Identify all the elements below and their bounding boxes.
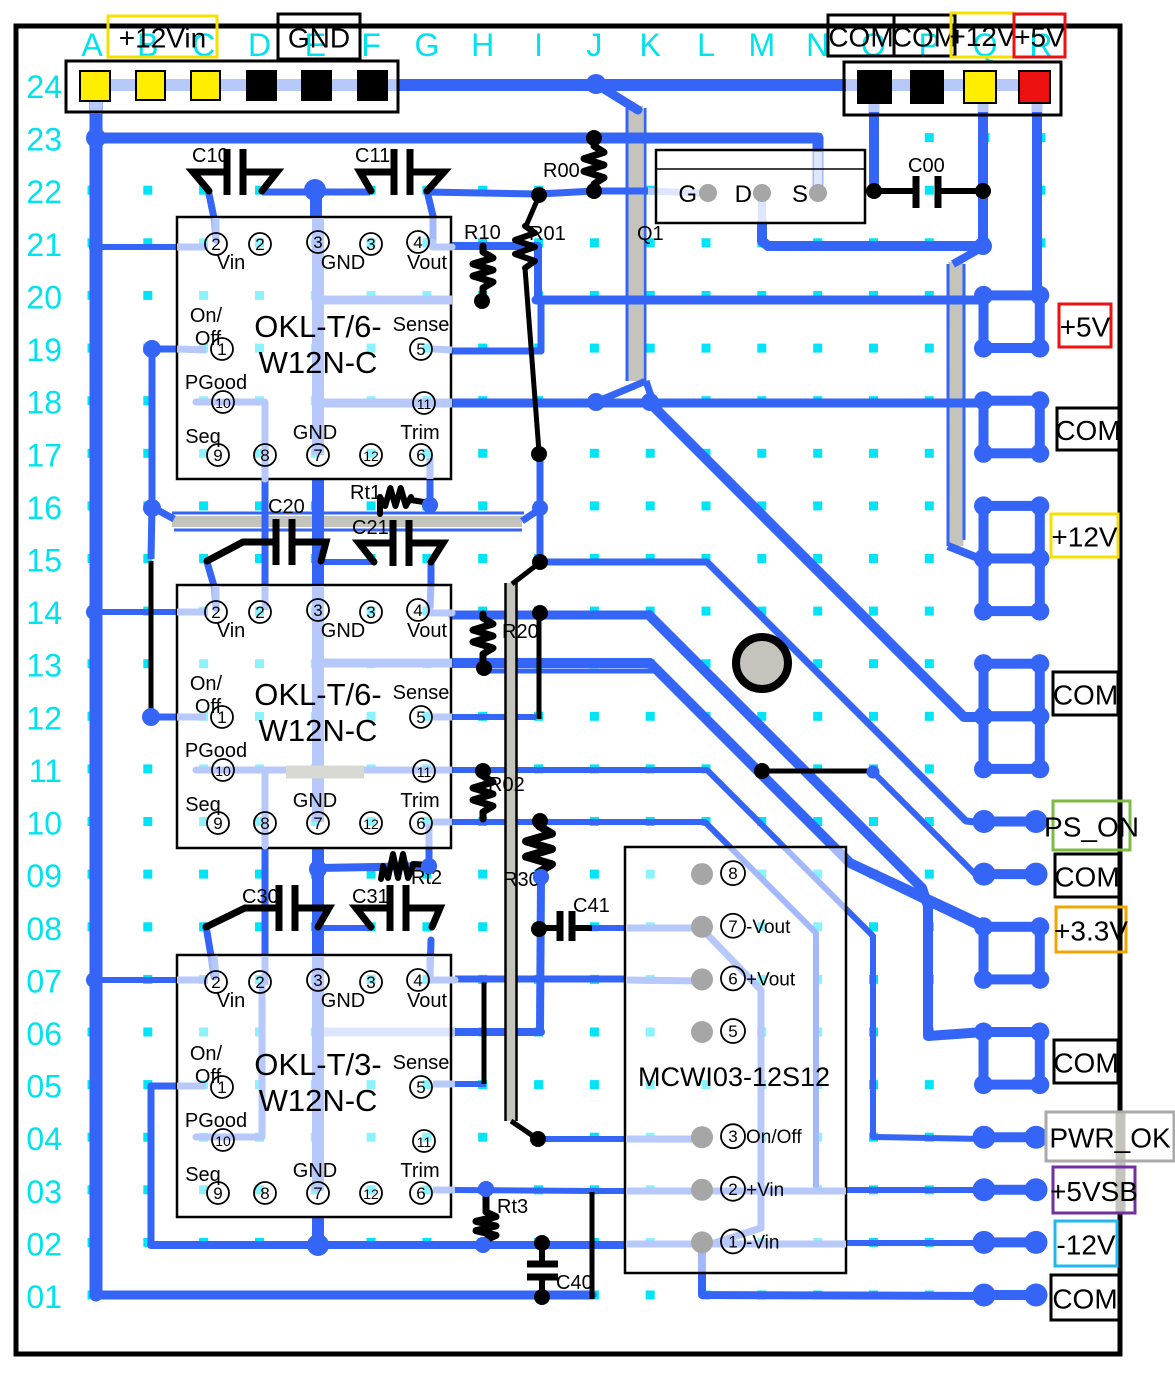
svg-text:C11: C11 <box>355 145 390 167</box>
svg-text:L: L <box>697 27 715 63</box>
svg-text:2: 2 <box>255 235 264 254</box>
svg-text:8: 8 <box>260 814 269 833</box>
svg-text:D: D <box>735 181 752 208</box>
junction B12 <box>142 708 160 726</box>
bare PS_ON jumper gray bar middle with black outline <box>506 583 517 1121</box>
pad C24 +12Vin yellow <box>191 71 220 100</box>
resistor R02 <box>473 772 493 819</box>
pale Vin2 stub <box>177 609 208 616</box>
svg-text:D: D <box>248 27 271 63</box>
wire PS_ON diagonal L15 to dumbbell <box>707 562 984 823</box>
+12V pad square Q16-R15 <box>974 496 1049 568</box>
pale PGood2 row 11 trace <box>265 767 452 774</box>
pale Vin3 stub <box>177 977 208 984</box>
wire E column GND between module1 and module2 <box>312 479 324 586</box>
wire Q24 pad down through C00 right to Q junction <box>978 112 988 246</box>
pale D column module2 top <box>262 586 269 610</box>
PS_ON terminal dots <box>973 810 1048 833</box>
pale MCWI row 7 stub <box>626 980 702 981</box>
svg-text:MCWI03-12S12: MCWI03-12S12 <box>638 1062 830 1092</box>
wire E08 to F08 C31 left <box>318 925 372 931</box>
svg-text:+12V: +12V <box>949 21 1015 52</box>
svg-text:07: 07 <box>26 963 62 999</box>
svg-text:Vin: Vin <box>217 620 246 642</box>
svg-text:G: G <box>678 181 697 208</box>
svg-text:H: H <box>471 27 494 63</box>
svg-text:20: 20 <box>26 279 62 315</box>
svg-text:09: 09 <box>26 858 62 894</box>
module U4 MCWI03 box <box>625 847 846 1273</box>
net label COM P <box>892 15 957 56</box>
svg-text:C21: C21 <box>352 517 389 539</box>
svg-text:12: 12 <box>26 700 62 736</box>
black diagonal bar bottom to I04 <box>511 1121 536 1138</box>
pale C20 drop inside <box>213 586 220 608</box>
module U1 pin 8 <box>254 444 276 466</box>
svg-text:3: 3 <box>366 235 375 254</box>
junction C40 bottom <box>534 1289 550 1305</box>
svg-text:R02: R02 <box>488 774 525 796</box>
wire Q junction diagonal to +12V bare jumper <box>953 247 983 264</box>
wire C21 right G15 drop to module 2 pin 4 <box>430 564 431 608</box>
module U1 pin 7 GND <box>307 444 329 466</box>
svg-text:COM: COM <box>892 22 957 53</box>
PWR_OK terminal dots <box>973 1126 1048 1149</box>
module U2 pin 2 Vin <box>205 601 227 623</box>
junction J22 R00 bottom <box>586 183 602 199</box>
module U4 pad pin 5 <box>691 1021 713 1043</box>
junction E02 <box>307 1234 329 1256</box>
module U3 pin 12 <box>360 1182 382 1204</box>
svg-text:GND: GND <box>293 790 337 812</box>
wire Q24 pad pale drop <box>978 101 989 114</box>
wire COM diagonal O11 to row 9 dumbbell <box>873 772 984 875</box>
svg-text:COM: COM <box>1053 680 1118 711</box>
wire On/Off3 column B row 5 to row 2 <box>148 1086 155 1245</box>
bare wire jumper B16-I16 gray <box>172 516 522 527</box>
svg-text:R20: R20 <box>502 621 539 643</box>
svg-text:+12Vin: +12Vin <box>119 23 206 54</box>
svg-text:+Vin: +Vin <box>746 1180 784 1201</box>
svg-text:+5V: +5V <box>1014 22 1065 53</box>
wire Sense2 row 12 to I12 <box>452 714 536 720</box>
svg-text:Vout: Vout <box>407 620 447 642</box>
junction B16 <box>143 499 161 517</box>
svg-text:3: 3 <box>313 233 322 252</box>
svg-text:24: 24 <box>26 69 62 105</box>
junction H11 R02 top <box>475 763 491 779</box>
junction E22 <box>304 179 326 201</box>
module U1 pin 4 Vout <box>407 231 429 253</box>
svg-text:Sense: Sense <box>393 1052 450 1074</box>
junction J23 R00 top <box>586 130 602 146</box>
junction J18 <box>587 393 605 411</box>
module U4 pin 1 <box>721 1229 745 1253</box>
capacitor C31 <box>356 885 440 931</box>
wire Vout3 row 7 to MCWI <box>455 976 626 983</box>
svg-text:14: 14 <box>26 595 62 631</box>
wire I17 to I16 to I15 <box>537 454 544 562</box>
svg-text:C31: C31 <box>352 886 389 908</box>
pad R24 +5V red <box>1019 71 1050 103</box>
net label +12V <box>1051 514 1118 557</box>
svg-text:10: 10 <box>26 806 62 842</box>
pale Vout3 stub <box>430 977 455 980</box>
svg-text:18: 18 <box>26 385 62 421</box>
svg-text:C20: C20 <box>268 496 305 518</box>
black diagonal bar top to I15 <box>512 564 538 584</box>
svg-text:GND: GND <box>321 252 365 274</box>
svg-text:Trim: Trim <box>400 422 439 444</box>
bare wire jumper row 16 top edge line <box>172 512 524 515</box>
pad O24 COM black <box>858 71 891 103</box>
junction I04 <box>530 1131 546 1147</box>
junction I15 <box>532 554 548 570</box>
pale C10 drop inside <box>213 218 220 240</box>
wire row 07 Vin3 from A07 to module 3 <box>94 977 178 983</box>
wire Sense3 row 5 to H05 <box>455 1081 486 1087</box>
wire Trim1 drop to Rt1 dot <box>427 479 434 505</box>
net label PS_ON <box>1044 801 1139 850</box>
svg-text:10: 10 <box>215 395 231 411</box>
svg-text:1: 1 <box>728 1232 737 1251</box>
svg-text:+3.3V: +3.3V <box>1054 916 1128 947</box>
wire +5VSB diagonal L10 into MCWI to N column down to row 3 <box>705 822 816 1186</box>
pad D24 GND black <box>247 71 276 100</box>
junction I17 R01 bottom <box>531 446 547 462</box>
pale Trim2 stub right <box>433 819 452 826</box>
wire I09 to I08 to row 6 corner <box>540 877 541 1031</box>
junction R10 bottom <box>474 293 490 309</box>
module U2 pin 9 Seq <box>207 812 229 834</box>
bare COM jumper thin line column J-K left <box>626 108 629 381</box>
resistor R10 <box>473 246 493 299</box>
svg-text:9: 9 <box>213 446 222 465</box>
svg-text:OKL-T/3-: OKL-T/3- <box>254 1047 381 1082</box>
wire Trim2 dot up into module 2 <box>426 824 433 866</box>
junction I02 <box>534 1235 550 1251</box>
black link I12 to I14 <box>537 613 542 719</box>
wire row 8 C41 to MCWI pin 7 <box>592 925 626 931</box>
module U4 pin 3 <box>721 1124 745 1148</box>
module U4 pad pin 8 <box>691 863 713 885</box>
svg-text:C00: C00 <box>908 155 945 177</box>
module U3 pin 4 Vout <box>407 969 429 991</box>
svg-text:COM: COM <box>1054 862 1119 893</box>
resistor R20 <box>473 614 493 666</box>
svg-text:Rt1: Rt1 <box>350 482 381 504</box>
module U1 pin 11 <box>413 392 435 414</box>
svg-text:W12N-C: W12N-C <box>259 1083 378 1118</box>
svg-text:COM: COM <box>1052 1284 1117 1315</box>
svg-text:4: 4 <box>413 601 422 620</box>
junction I09 <box>533 869 549 885</box>
svg-text:W12N-C: W12N-C <box>259 345 378 380</box>
junction H02 <box>475 1237 491 1253</box>
wire PGood2 row 11 to L11 <box>452 767 707 773</box>
junction A21 <box>89 240 103 254</box>
wire row 6 from module 3 to I06 corner <box>318 1028 541 1036</box>
junction Rt1 dot top <box>422 497 438 513</box>
wire row 02 from B02 to MCWI pin 1 <box>151 1241 623 1249</box>
svg-text:COM: COM <box>1055 415 1120 446</box>
svg-text:COM: COM <box>828 22 893 53</box>
capacitor C00 <box>874 176 983 208</box>
pale MCWI -Vout to -Vin trace <box>702 929 761 1247</box>
wire row 18 PGood/11 row to COM square Q18 <box>452 399 984 408</box>
module U4 pin 5 <box>721 1019 745 1043</box>
wire row 24 GND F24 to O24 <box>398 79 846 91</box>
pale row20 branch module1 <box>318 296 452 305</box>
pale Sense3 stub <box>433 1081 455 1088</box>
junction I09 top <box>533 869 549 885</box>
capacitor C21 <box>359 520 443 566</box>
svg-text:On/: On/ <box>190 673 223 695</box>
pale MCWI row 4 stub <box>626 1136 702 1143</box>
wire R24 pad pale drop <box>1032 101 1043 114</box>
svg-text:+12V: +12V <box>1051 522 1117 553</box>
pale Trim2 drop <box>426 824 433 846</box>
svg-text:8: 8 <box>260 446 269 465</box>
capacitor C20 <box>207 519 326 565</box>
junction Rt1 dot <box>422 497 438 513</box>
wire M11 to O11 black jumper <box>762 769 873 774</box>
module U2 pin 2b <box>249 601 271 623</box>
wire row 9 E09 to Trim2 dot G09 <box>318 866 429 868</box>
junction E09 <box>309 860 327 878</box>
junction J24 <box>586 74 606 94</box>
svg-text:12: 12 <box>363 1186 379 1202</box>
wire E column GND module3 to row 02 <box>312 1217 324 1245</box>
junction C00 right <box>975 183 991 199</box>
module U1 pin 2b <box>249 233 271 255</box>
svg-text:04: 04 <box>26 1121 62 1157</box>
black link B15 to B12 On/Off2 <box>149 561 154 714</box>
svg-text:10: 10 <box>215 763 231 779</box>
svg-text:COM: COM <box>1053 1048 1118 1079</box>
module U4 pad pin 7 <box>691 916 713 938</box>
junction M11 <box>754 763 770 779</box>
junction A23 <box>86 128 106 148</box>
junction C00 left <box>866 183 882 199</box>
svg-text:5: 5 <box>416 708 425 727</box>
wire row 4 PS_ON I04 to MCWI pin 3 <box>538 1136 626 1142</box>
module U3 pin 3b <box>360 971 382 993</box>
wire Vout2 row 14 to K14 <box>452 611 649 620</box>
wire row 21 Vin1 from A21 to module 1 <box>94 244 178 250</box>
svg-text:3: 3 <box>728 1127 737 1146</box>
wire row 3 Trim3 to H03 to J03 to MCWI pin 2 <box>455 1190 626 1191</box>
left input connector box <box>66 61 398 112</box>
svg-text:Vin: Vin <box>217 990 246 1012</box>
module U1 pin 3b <box>360 233 382 255</box>
svg-text:+5VSB: +5VSB <box>1050 1176 1138 1207</box>
module U1 OKL-T/6 box <box>177 217 451 479</box>
module U1 pin 6 Trim <box>410 444 432 466</box>
module U3 pin 7 GND <box>307 1182 329 1204</box>
svg-text:11: 11 <box>29 753 62 789</box>
wire +12Vin rail column A <box>90 100 103 1295</box>
mounting hole M13 <box>736 637 788 689</box>
svg-text:On/: On/ <box>190 305 223 327</box>
resistor Rt1 <box>380 488 430 514</box>
module U2 pin 11 <box>413 760 435 782</box>
module U3 pin 8 <box>254 1182 276 1204</box>
pale PGood2 trace <box>196 770 265 846</box>
COM terminal dots row 9 <box>973 863 1048 886</box>
pale On/Off2 stub <box>177 714 206 721</box>
capacitor C41 <box>544 911 592 941</box>
bare +12V jumper thin line right edge <box>963 264 966 540</box>
module U2 pin 12 <box>360 812 382 834</box>
svg-text:J: J <box>586 27 602 63</box>
svg-text:GND: GND <box>293 1160 337 1182</box>
junction K18 <box>641 393 659 411</box>
wire Q1 D pad drop and row to Q column <box>762 223 983 246</box>
svg-text:A: A <box>81 27 103 63</box>
+5VSB terminal dots <box>973 1178 1048 1201</box>
net label GND top <box>278 14 360 59</box>
svg-text:7: 7 <box>313 814 322 833</box>
svg-text:+5V: +5V <box>1060 312 1111 343</box>
pale C31 drop inside <box>427 956 434 975</box>
bare +12V jumper thin line left edge <box>947 264 950 546</box>
pad B24 +12Vin yellow <box>136 71 165 100</box>
wire C31 right drop to module 3 pin 4 <box>430 940 431 975</box>
svg-text:R10: R10 <box>464 222 501 244</box>
wire column B B19 to B16 <box>149 349 156 507</box>
wire row 19 On/Off1 from B19 to module 1 <box>152 346 178 353</box>
wire row 24 pale behind right connector pads <box>846 79 1048 91</box>
svg-text:01: 01 <box>26 1279 62 1315</box>
svg-text:11: 11 <box>417 396 432 412</box>
svg-text:Vout: Vout <box>407 252 447 274</box>
module U2 pin 3b <box>360 601 382 623</box>
wire J24 diagonal to COM bare jumper <box>596 84 638 110</box>
pale row13 branch module2 <box>318 659 452 668</box>
net label COM 6 <box>1053 1040 1118 1083</box>
module U1 pin 12 <box>360 444 382 466</box>
net label COM 1 <box>1051 1275 1119 1320</box>
-12V terminal dots <box>973 1231 1048 1254</box>
svg-text:13: 13 <box>26 648 62 684</box>
wire C21 left F15 to E column <box>321 559 374 565</box>
junction A07 <box>86 972 102 988</box>
pale MCWI row 2 trace <box>626 1241 846 1248</box>
module U3 pin 11 <box>413 1130 435 1152</box>
junction G09 top <box>421 858 437 874</box>
Q1 pad G <box>699 184 717 202</box>
junction H03 top <box>478 1181 494 1197</box>
svg-text:F: F <box>361 27 381 63</box>
+3.3V pad square Q8-R7 <box>974 917 1049 989</box>
capacitor C11 <box>360 149 444 195</box>
svg-text:OKL-T/6-: OKL-T/6- <box>254 309 381 344</box>
wire Sense1 from module edge up to row 20 <box>452 302 541 351</box>
pale row18 branch module1 <box>318 399 452 408</box>
svg-text:PGood: PGood <box>185 740 247 762</box>
pale On/Off1 stub <box>177 349 206 350</box>
module U2 OKL-T/6 box <box>177 585 451 848</box>
pale Sense1 stub <box>433 349 452 350</box>
pale Trim3 stub <box>433 1187 455 1194</box>
wire jumper bottom diagonal to K18 <box>646 381 652 399</box>
pale On/Off3 stub <box>177 1083 206 1090</box>
net label +3.3V <box>1054 907 1128 952</box>
svg-text:3: 3 <box>366 973 375 992</box>
net label +5V top <box>1014 14 1065 57</box>
wire module2 PGood chain column D down to module 3 <box>262 770 269 956</box>
module U4 pin 6 <box>721 966 745 990</box>
svg-text:03: 03 <box>26 1174 62 1210</box>
wire C30 left drop to module 3 pin 2 <box>206 926 214 977</box>
pale Vout2 stub <box>430 610 452 613</box>
svg-text:-Vout: -Vout <box>746 917 791 938</box>
svg-text:1: 1 <box>217 708 226 727</box>
module U1 pin 5 Sense <box>410 338 432 360</box>
module U4 pad pin 6 <box>691 968 713 990</box>
row numbers 24-01 <box>26 69 62 1315</box>
svg-text:M: M <box>748 27 775 63</box>
wire E column GND module2 to module3 through E09 E08 <box>312 848 324 956</box>
junction I14 <box>532 605 548 621</box>
module U2 pin 6 Trim <box>410 812 432 834</box>
svg-text:9: 9 <box>213 814 222 833</box>
svg-text:PGood: PGood <box>185 372 247 394</box>
bare +12V jumper gray bar right column <box>949 262 964 546</box>
svg-text:3: 3 <box>366 603 375 622</box>
module U2 pin 8 <box>254 812 276 834</box>
svg-text:17: 17 <box>26 437 62 473</box>
svg-text:R00: R00 <box>543 160 580 182</box>
svg-text:2: 2 <box>255 973 264 992</box>
svg-text:5: 5 <box>416 340 425 359</box>
svg-text:1: 1 <box>217 1078 226 1097</box>
svg-text:2: 2 <box>728 1180 737 1199</box>
svg-text:8: 8 <box>728 864 737 883</box>
wire R24 pad down to +5V square R20 <box>1037 112 1040 296</box>
wire Vout2 diagonal K14 south-east <box>649 615 984 1036</box>
wire O24 pad pale drop <box>869 101 880 114</box>
pale Trim1 stub <box>427 458 434 479</box>
module U3 pin 10 PGood <box>212 1129 234 1151</box>
svg-text:Sense: Sense <box>393 314 450 336</box>
right output connector box <box>844 62 1061 115</box>
svg-text:I: I <box>534 27 543 63</box>
wire row 14 Vin2 from A14 to module 2 <box>94 609 178 615</box>
wire C10 left lead drop to pin2 module1 <box>209 194 216 240</box>
Q1 box inner line <box>656 168 865 170</box>
svg-text:PGood: PGood <box>185 1110 247 1132</box>
svg-text:Trim: Trim <box>400 790 439 812</box>
module U3 pin 1 On/Off <box>211 1076 233 1098</box>
junction I16 <box>532 500 548 516</box>
wire row 01 +12Vin A01 to J01 <box>96 1291 592 1300</box>
module U3 pin 2 Vin <box>205 971 227 993</box>
pad E24 GND black <box>302 71 331 100</box>
wire B16 to bare jumper diagonal <box>152 507 174 519</box>
COM pad square Q6-R5 <box>974 1023 1049 1095</box>
module U1 pin 3 GND <box>307 231 329 253</box>
junction Q22 corner <box>974 237 992 255</box>
svg-text:7: 7 <box>313 1184 322 1203</box>
svg-text:C30: C30 <box>242 886 279 908</box>
module U4 pin 8 <box>721 861 745 885</box>
svg-text:7: 7 <box>313 446 322 465</box>
wire jumper bottom diagonal to J18 <box>596 381 646 402</box>
resistor Rt2 <box>381 854 432 879</box>
pale MCWI row 3 trace <box>626 1188 846 1195</box>
